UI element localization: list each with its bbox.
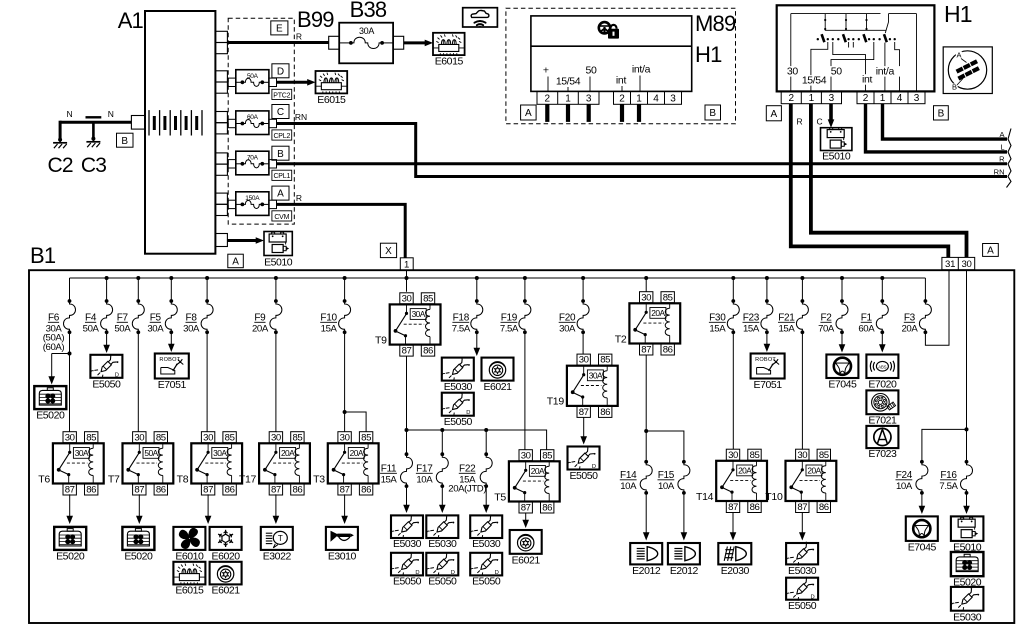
- svg-text:B1: B1: [30, 243, 56, 268]
- module M89 dashed enclosure: [506, 8, 736, 124]
- svg-text:3: 3: [586, 94, 592, 105]
- svg-text:ROBOT: ROBOT: [755, 357, 776, 363]
- svg-text:E7020: E7020: [868, 379, 897, 391]
- svg-text:T5: T5: [494, 491, 506, 503]
- arrow from H1 pin 3 to battery E5010: [829, 104, 833, 121]
- battery A1 left terminal stub: [131, 116, 145, 130]
- fuse F24 10A: [920, 460, 924, 464]
- bus wire inside B1 from X1: [406, 270, 408, 291]
- svg-text:E: E: [276, 24, 283, 35]
- connector label B box (B99): [272, 146, 289, 160]
- svg-text:70A: 70A: [247, 154, 259, 161]
- relay T5 20A: [519, 450, 532, 461]
- svg-text:E5050: E5050: [393, 576, 422, 588]
- fuse F18 7.5A: [476, 278, 478, 301]
- fuse 50A (D row): [236, 70, 269, 94]
- wire bus to relay T2: [645, 278, 647, 292]
- connector label E box: [271, 21, 288, 35]
- battery A1 cell bars: [148, 110, 150, 135]
- injection E5050 (below T10): [786, 578, 818, 600]
- svg-text:7.5A: 7.5A: [452, 324, 471, 335]
- arrow F22 to E5030: [485, 486, 487, 505]
- svg-text:C3: C3: [81, 154, 106, 177]
- fuse F21 15A: [801, 278, 803, 301]
- svg-text:87: 87: [65, 485, 75, 496]
- svg-text:30: 30: [65, 432, 75, 443]
- svg-text:ROBOT: ROBOT: [159, 357, 180, 363]
- arrow T10 pin87 to E5030: [801, 513, 803, 533]
- connector label D box: [272, 64, 289, 78]
- power steering E7045 (bottom): [906, 516, 938, 541]
- trailer module E3022: [261, 527, 293, 550]
- svg-text:50A: 50A: [83, 324, 100, 335]
- fuse F11 15A: [406, 430, 408, 454]
- label PTC2 box: [272, 89, 292, 99]
- svg-text:RN: RN: [994, 167, 1005, 176]
- svg-text:E5030: E5030: [953, 611, 982, 623]
- svg-text:10A: 10A: [896, 481, 913, 492]
- wire break zigzag at right edge: [1007, 129, 1012, 188]
- svg-text:30: 30: [961, 259, 971, 270]
- svg-text:+: +: [543, 65, 549, 77]
- svg-text:R: R: [296, 193, 302, 203]
- connector label A box (bottom of A1): [228, 254, 244, 268]
- svg-text:1: 1: [636, 94, 642, 105]
- svg-text:T: T: [278, 534, 283, 543]
- svg-text:15A: 15A: [778, 324, 795, 335]
- svg-text:15A: 15A: [321, 324, 338, 335]
- arrow F23 to robotized gearbox E7051: [766, 332, 768, 344]
- svg-text:87: 87: [797, 502, 807, 513]
- svg-text:E3022: E3022: [263, 550, 292, 562]
- ignition switch H1 box: [777, 5, 935, 91]
- svg-text:4: 4: [897, 93, 903, 104]
- pump E6021 (right of E5030): [482, 358, 514, 381]
- svg-text:87: 87: [521, 503, 531, 514]
- svg-text:30A: 30A: [75, 448, 89, 458]
- arrow F4 to E5050: [106, 332, 108, 345]
- svg-text:85: 85: [225, 432, 235, 443]
- svg-text:10A: 10A: [620, 481, 637, 492]
- svg-text:50A: 50A: [144, 448, 158, 458]
- svg-text:20A: 20A: [252, 324, 269, 335]
- fuse F1 60A: [881, 278, 883, 301]
- svg-text:20A: 20A: [531, 466, 545, 476]
- power steering E7045 (top): [826, 355, 858, 379]
- wire battery negative to grounds: [60, 121, 131, 124]
- svg-text:85: 85: [600, 355, 610, 366]
- svg-text:E2012: E2012: [670, 565, 699, 577]
- svg-text:T10: T10: [765, 491, 783, 503]
- svg-text:E6021: E6021: [483, 381, 512, 393]
- svg-text:30A: 30A: [183, 324, 200, 335]
- svg-text:CVM: CVM: [274, 214, 289, 221]
- arrow F17 to E5030: [441, 486, 443, 505]
- relay T17 20A: [269, 432, 282, 443]
- svg-text:B99: B99: [297, 7, 334, 32]
- svg-text:86: 86: [156, 485, 166, 496]
- wire F21 to relay T10: [801, 332, 803, 449]
- svg-text:E7045: E7045: [828, 379, 857, 391]
- fuse-relay box B1: [29, 270, 1014, 623]
- svg-text:86: 86: [750, 502, 760, 513]
- svg-text:15A: 15A: [709, 324, 726, 335]
- svg-text:87: 87: [340, 485, 350, 496]
- svg-text:30: 30: [134, 432, 144, 443]
- wire F9 to relay T17: [275, 332, 277, 431]
- svg-text:20A: 20A: [350, 448, 364, 458]
- arrow F16 to battery E5010: [966, 493, 968, 507]
- svg-text:87: 87: [579, 407, 589, 418]
- svg-text:20A(JTD): 20A(JTD): [448, 484, 486, 495]
- fuse F6 30A(50A)(60A): [69, 278, 71, 301]
- svg-text:E6015: E6015: [175, 585, 204, 597]
- svg-text:30A: 30A: [147, 324, 164, 335]
- horn E3010: [326, 527, 358, 550]
- ASR unit E7023: [866, 426, 898, 448]
- svg-text:A: A: [987, 246, 994, 257]
- fuse F3 20A: [924, 278, 926, 301]
- wire from connector pin 30 to fuses F24 F16: [966, 270, 968, 462]
- svg-text:E6015: E6015: [435, 56, 464, 68]
- fuse F19 7.5A: [524, 278, 526, 301]
- label CPL1 box: [272, 170, 292, 180]
- robotized gearbox E7051 (right): [751, 354, 785, 379]
- svg-text:E6021: E6021: [512, 554, 541, 566]
- svg-text:50: 50: [831, 66, 843, 78]
- fuse F16 7.5A: [965, 460, 969, 464]
- battery E5010 (under H1): [821, 128, 852, 151]
- svg-text:85: 85: [542, 450, 552, 461]
- svg-text:3: 3: [914, 93, 920, 104]
- svg-text:30: 30: [797, 450, 807, 461]
- wire C from H1 pin 1 to connector pin 30: [811, 104, 967, 258]
- svg-text:A: A: [232, 257, 239, 268]
- pump E6021 (under T5): [510, 530, 542, 554]
- svg-text:B: B: [277, 149, 284, 160]
- svg-text:X: X: [385, 246, 392, 257]
- svg-text:T9: T9: [375, 334, 387, 346]
- svg-text:86: 86: [819, 502, 829, 513]
- svg-text:E5020: E5020: [124, 550, 153, 562]
- fuse F2 70A: [841, 278, 843, 301]
- H1 internal contact diagram: [791, 14, 917, 92]
- svg-text:30A: 30A: [589, 370, 603, 380]
- svg-text:T7: T7: [108, 473, 120, 485]
- relay T10 20A: [796, 449, 809, 460]
- svg-text:30: 30: [521, 450, 531, 461]
- svg-text:D: D: [277, 66, 284, 77]
- svg-text:86: 86: [361, 485, 371, 496]
- arrow T17 pin87 to E3022: [275, 494, 277, 516]
- svg-text:A: A: [999, 130, 1004, 139]
- svg-text:E6015: E6015: [317, 94, 346, 106]
- clutch unit E7021: [866, 390, 898, 414]
- fuse F15 10A: [682, 460, 686, 464]
- H1 connector A pin row 2 1 3: [781, 91, 841, 103]
- arrow T7 pin87 to E5020: [138, 494, 140, 516]
- svg-text:E5050: E5050: [428, 576, 457, 588]
- svg-text:150A: 150A: [245, 195, 260, 202]
- svg-text:B: B: [952, 83, 957, 92]
- svg-text:30: 30: [579, 355, 589, 366]
- svg-text:E3010: E3010: [328, 550, 357, 562]
- svg-text:7.5A: 7.5A: [500, 324, 519, 335]
- svg-text:30: 30: [203, 432, 213, 443]
- car alarm signal icon box: [463, 8, 498, 27]
- injection E5050 (under T19): [568, 447, 600, 470]
- fuse F5 30A: [170, 278, 172, 301]
- svg-text:E2012: E2012: [632, 565, 661, 577]
- svg-text:3: 3: [670, 94, 676, 105]
- svg-text:PTC2: PTC2: [273, 92, 290, 99]
- svg-text:T14: T14: [696, 491, 714, 503]
- wire F6 to relay T6 and E5020: [69, 332, 71, 431]
- svg-text:87: 87: [203, 485, 213, 496]
- svg-text:87: 87: [641, 345, 651, 356]
- arrow F15 to headlight E2012: [683, 493, 685, 533]
- heater E6015 (right of B38): [433, 33, 465, 55]
- label CPL2 box: [272, 130, 292, 140]
- blower E5020 (under T6): [54, 527, 86, 550]
- injection E5030 (under F18): [442, 358, 474, 381]
- svg-text:30A: 30A: [359, 26, 374, 36]
- arrow T19 pin87 to E5050: [583, 417, 585, 437]
- svg-text:15/54: 15/54: [556, 76, 581, 88]
- wire T2 pin87 to fuses F14 F15: [645, 355, 647, 462]
- fuse F17 10A: [441, 430, 443, 454]
- arrow from fuse D to glow plug E6015: [277, 81, 309, 84]
- svg-text:86: 86: [225, 485, 235, 496]
- arrow from A1 to battery E5010: [227, 239, 256, 242]
- injection E5030 (bottom right): [951, 587, 984, 611]
- svg-text:T19: T19: [547, 396, 565, 408]
- svg-text:H1: H1: [944, 1, 972, 27]
- svg-text:3: 3: [829, 93, 835, 104]
- fuse 60A (C row): [236, 111, 269, 135]
- svg-text:1: 1: [404, 260, 409, 271]
- svg-text:T2: T2: [615, 333, 627, 345]
- svg-text:int/a: int/a: [632, 64, 651, 76]
- svg-text:86: 86: [423, 346, 433, 357]
- arrow F11 to E5030: [406, 486, 408, 505]
- fuse F30 15A: [732, 278, 734, 301]
- arrow T14 pin87 to fog light E2030: [732, 513, 734, 533]
- wire L from H1 pin B2: [866, 104, 1008, 152]
- svg-text:30: 30: [340, 432, 350, 443]
- svg-text:30: 30: [641, 292, 651, 303]
- svg-text:E5030: E5030: [428, 538, 457, 550]
- svg-text:int/a: int/a: [876, 66, 895, 78]
- battery E5010 (bottom right): [951, 516, 984, 541]
- wire F8 to relay T8: [206, 332, 208, 431]
- svg-text:85: 85: [292, 432, 302, 443]
- H1 pin labels: [785, 66, 799, 77]
- svg-text:30A: 30A: [213, 448, 227, 458]
- injection E5030 (under T10): [786, 543, 818, 564]
- svg-text:31: 31: [945, 259, 955, 270]
- svg-text:B: B: [938, 108, 945, 119]
- heater E6015 (bottom): [173, 562, 205, 585]
- ground C2: [58, 138, 62, 142]
- immobilizer icon steering wheel with lock: [599, 22, 619, 39]
- svg-text:15A: 15A: [381, 475, 398, 486]
- svg-text:87: 87: [134, 485, 144, 496]
- M89 pin wires internal: [547, 77, 549, 92]
- svg-text:A1: A1: [118, 8, 144, 33]
- connector pins 31 30 box at B1 top right: [942, 257, 975, 269]
- svg-text:60A: 60A: [858, 324, 875, 335]
- svg-text:20A: 20A: [738, 466, 752, 476]
- arrow T8 pin87 to E6010 E6020 group: [207, 494, 209, 516]
- svg-text:86: 86: [663, 345, 673, 356]
- svg-text:2: 2: [789, 93, 795, 104]
- arrow T6 pin87 to E5020: [69, 494, 71, 516]
- wire F20 to relay T19: [582, 332, 584, 354]
- injection E5030 (under F17): [426, 515, 458, 538]
- svg-text:E5010: E5010: [264, 257, 293, 269]
- svg-text:20A: 20A: [281, 448, 295, 458]
- fuse F14 10A: [644, 460, 648, 464]
- injection E5050 (below, F22 column): [470, 553, 502, 576]
- svg-text:1: 1: [809, 93, 815, 104]
- svg-text:50A: 50A: [114, 324, 131, 335]
- svg-text:20A: 20A: [807, 466, 821, 476]
- svg-text:E5050: E5050: [444, 416, 473, 428]
- svg-text:30: 30: [402, 293, 412, 304]
- svg-text:E5050: E5050: [569, 470, 598, 482]
- svg-text:85: 85: [663, 292, 673, 303]
- svg-text:E7045: E7045: [908, 542, 937, 554]
- M89 connector A pin row 2 1 3: [537, 91, 599, 104]
- fuse F9 20A: [275, 278, 277, 301]
- svg-text:T6: T6: [38, 473, 50, 485]
- svg-text:30A: 30A: [412, 309, 426, 319]
- svg-text:E5020: E5020: [56, 550, 85, 562]
- arrow F1 to ABS E7020: [881, 332, 883, 345]
- connector label B box (M89): [705, 105, 721, 120]
- wire R from fuse B to right: [277, 162, 1008, 165]
- svg-text:L: L: [1000, 143, 1004, 152]
- svg-text:E5010: E5010: [822, 151, 851, 163]
- svg-text:A: A: [525, 108, 532, 119]
- arrow F24 to power steering E7045: [921, 493, 923, 507]
- svg-text:1: 1: [565, 94, 571, 105]
- svg-text:30A: 30A: [559, 324, 576, 335]
- relay T9 30A: [400, 293, 413, 304]
- injection E5030 (under F22): [470, 515, 502, 538]
- svg-text:ABS: ABS: [878, 364, 887, 369]
- fuse box B99 dashed enclosure: [228, 18, 294, 224]
- pump E6021 (bottom left group): [210, 562, 242, 585]
- connector pin 1 box at B1 top: [400, 258, 413, 271]
- svg-text:R: R: [797, 117, 803, 127]
- battery A1 box: [145, 11, 215, 254]
- headlight E2012 (left): [630, 543, 662, 564]
- blower E5020 (under T7): [122, 527, 154, 550]
- svg-text:1: 1: [880, 93, 886, 104]
- svg-text:T8: T8: [177, 473, 189, 485]
- relay T8 30A: [201, 432, 214, 443]
- wire R from A1 to fuse B38: [227, 41, 328, 44]
- relay T6 30A: [63, 432, 76, 443]
- arrow T5 pin87 to pump E6021: [525, 513, 527, 521]
- fuse F23 15A: [766, 278, 768, 301]
- connector label A box (H1): [766, 106, 781, 121]
- arrow F18 to E5030 E6021 group: [476, 332, 478, 348]
- svg-text:4: 4: [653, 94, 659, 105]
- ABS unit E7020: [866, 355, 898, 379]
- relay T19 30A: [577, 354, 590, 365]
- wire F30 to relay T14: [732, 332, 734, 449]
- fog light E2030: [718, 543, 751, 564]
- svg-text:86: 86: [292, 485, 302, 496]
- svg-text:E5030: E5030: [444, 381, 473, 393]
- arrow F14 to headlight E2012: [645, 493, 647, 533]
- svg-text:CPL2: CPL2: [273, 133, 290, 140]
- svg-text:E5050: E5050: [92, 378, 121, 390]
- svg-text:int: int: [616, 75, 627, 87]
- fuse F10 15A: [344, 278, 346, 301]
- M89 connector B pin row 2 1 4 3: [614, 91, 682, 104]
- svg-text:T3: T3: [313, 473, 325, 485]
- svg-text:N: N: [67, 109, 73, 119]
- svg-text:E5050: E5050: [472, 576, 501, 588]
- svg-text:C2: C2: [47, 154, 72, 177]
- svg-text:E5020: E5020: [36, 410, 65, 422]
- connector label C box: [272, 105, 289, 119]
- svg-text:B: B: [709, 108, 716, 119]
- svg-text:15A: 15A: [743, 324, 760, 335]
- label CVM box: [272, 211, 292, 221]
- injection E5030 (under F11): [391, 515, 423, 538]
- svg-text:T17: T17: [239, 473, 257, 485]
- wire F10 to relay T3 pins 30 and 85: [344, 332, 346, 431]
- main bus wire in B1: [70, 277, 926, 279]
- svg-text:86: 86: [600, 407, 610, 418]
- svg-text:E7051: E7051: [754, 379, 783, 391]
- svg-text:87: 87: [728, 502, 738, 513]
- svg-text:A: A: [277, 189, 284, 200]
- fuse F4 50A: [106, 278, 108, 301]
- blower E5020 (bottom right): [951, 552, 984, 576]
- svg-text:E6021: E6021: [212, 585, 241, 597]
- connector label A box (near pins 31 30): [983, 244, 999, 257]
- svg-text:C: C: [817, 117, 823, 127]
- svg-text:(60A): (60A): [43, 342, 65, 353]
- svg-text:R: R: [296, 32, 302, 42]
- svg-text:85: 85: [361, 432, 371, 443]
- injection E5050 (under F4): [90, 355, 122, 378]
- svg-text:15/54: 15/54: [802, 75, 827, 87]
- wire F7 to relay T7: [137, 332, 139, 431]
- svg-text:2: 2: [863, 93, 869, 104]
- svg-text:M89: M89: [695, 11, 736, 36]
- fan E6010: [173, 527, 205, 550]
- svg-text:10A: 10A: [416, 475, 433, 486]
- svg-text:85: 85: [156, 432, 166, 443]
- relay T3 20A: [338, 432, 351, 443]
- robotized gearbox E7051 (left): [155, 354, 189, 379]
- svg-text:30: 30: [271, 432, 281, 443]
- wire F19 to relay T5: [524, 332, 526, 450]
- mid bus wire from T9 to T5: [407, 430, 547, 450]
- heater E6015 (left): [316, 71, 348, 93]
- connector label A box (M89): [521, 105, 537, 120]
- svg-text:E2030: E2030: [721, 565, 750, 577]
- arrow F2 to power steering E7045: [841, 332, 843, 345]
- injection E5050 (below, F17 column): [426, 553, 458, 576]
